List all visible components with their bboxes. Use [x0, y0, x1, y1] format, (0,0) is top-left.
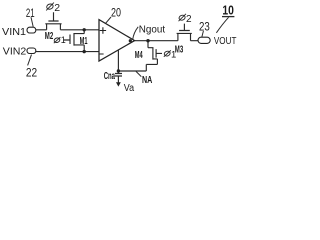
svg-text:2: 2 [54, 2, 60, 14]
svg-text:NA: NA [142, 75, 152, 86]
svg-text:22: 22 [26, 65, 37, 79]
svg-text:VIN1: VIN1 [2, 26, 26, 38]
svg-text:1: 1 [171, 50, 176, 61]
svg-text:20: 20 [111, 6, 121, 20]
svg-text:M1: M1 [80, 36, 88, 47]
svg-text:Va: Va [124, 83, 135, 94]
svg-text:10: 10 [222, 3, 234, 18]
svg-text:23: 23 [199, 20, 210, 34]
svg-text:M2: M2 [45, 31, 54, 42]
svg-text:VOUT: VOUT [214, 36, 237, 47]
svg-text:M4: M4 [135, 50, 143, 61]
svg-text:1: 1 [61, 35, 66, 45]
svg-text:2: 2 [186, 14, 192, 25]
svg-text:VIN2: VIN2 [3, 46, 27, 58]
svg-text:21: 21 [26, 6, 35, 20]
svg-text:Ngout: Ngout [139, 24, 166, 35]
svg-text:Cna: Cna [104, 71, 116, 82]
